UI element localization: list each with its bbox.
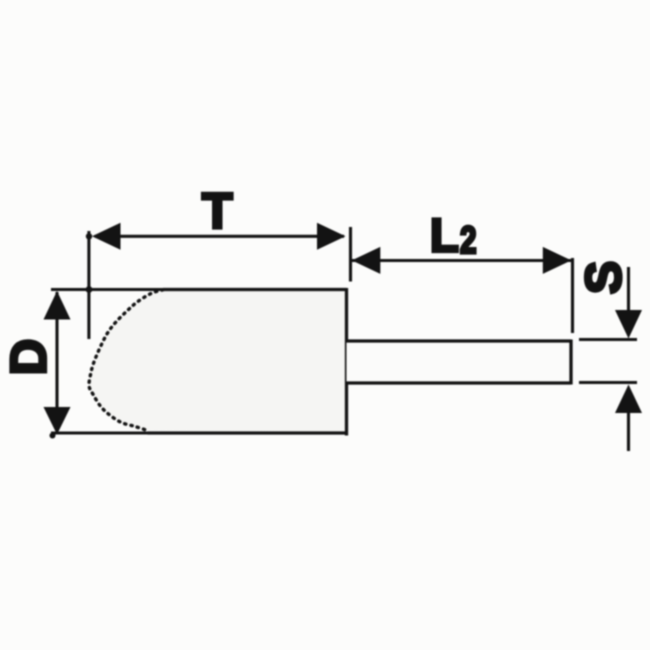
dimension L2 line [352,259,571,262]
shank bottom edge [347,381,572,384]
shank right end edge [569,340,572,385]
dimension D line [55,292,58,431]
svg-text:2: 2 [460,220,476,262]
dimension D bottom arrowhead [44,407,71,435]
abrasive body fill [89,290,347,433]
dimension S lower arrowhead (pointing up) [615,385,642,414]
dimension T line [95,235,344,238]
dimension D top arrowhead [44,291,71,320]
abrasive body rounded nose (dotted arc) [89,290,163,431]
junction blob T-extension crossing [86,233,92,239]
svg-text:S: S [576,261,632,294]
svg-text:D: D [0,339,57,375]
dimension L2 right arrowhead [543,247,572,274]
dimension D bottom extension line [51,431,148,434]
abrasive body top edge [163,288,347,291]
dimension T left arrowhead [92,223,121,250]
dimension T right arrowhead [317,223,346,250]
svg-text:L: L [430,209,459,262]
abrasive body right edge [345,288,348,436]
junction blob D-arrow tip nub [50,433,56,439]
dimension S bottom tick line [579,381,637,384]
dimension D top extension line [51,288,163,291]
dimension L2 left extension line [349,227,352,282]
junction blob extension/top-edge crossing [86,286,93,293]
abrasive body bottom edge [148,431,348,434]
dimension S lower arrow line [627,410,630,451]
dimension L2 left arrowhead [352,247,381,274]
dimension S top tick line [579,338,637,341]
dimension L2 right extension line [571,258,574,333]
dimension S upper arrowhead (pointing down) [615,310,642,339]
dimension S upper arrow line [627,267,630,312]
dimension T extension line (left, nose tip) [87,231,90,339]
shank fill [347,341,572,383]
svg-text:T: T [202,183,233,239]
shank top edge [347,339,572,342]
